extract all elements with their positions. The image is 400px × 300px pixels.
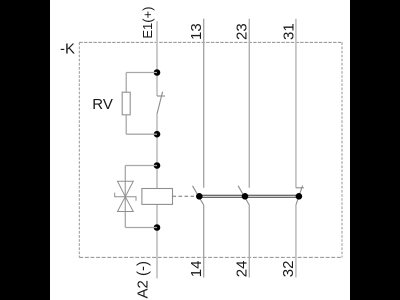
mechanical linkage dashed from coil [173,195,198,197]
wire E1 input vertical (top segment of coil path) [156,21,158,96]
svg-text:E1(+): E1(+) [140,7,155,39]
wire contact 31 top vertical [295,19,297,188]
contact 31-32 NC seat tick [296,187,304,189]
wire contact 23 top vertical [248,19,250,188]
terminal label E1(+) [140,7,155,39]
terminal label 13 [188,23,205,40]
wire suppressor branch top horizontal [125,165,157,167]
internal switch contact on coil path (seat tick) [157,95,165,97]
terminal label 24 [234,261,251,278]
wire coil path middle segment [156,114,158,189]
junction dot at E1/RV top [154,69,161,76]
wire RV branch left vertical upper lead [125,73,127,93]
terminal label 31 [280,23,297,40]
contact 23-24 NO arm [238,186,249,205]
wire contact 24 bottom vertical [248,205,250,278]
relay boundary dashed box -K top edge [79,41,342,43]
contact 31-32 NC arm [296,186,303,206]
terminal label 32 [280,261,297,278]
junction dot linkage at contact 23-24 [242,193,249,200]
relay boundary dashed box -K left edge [78,42,80,257]
wire contact 32 bottom vertical [295,205,297,278]
wire RV branch left vertical lower lead [125,115,127,134]
terminal label A2 (-) [134,261,151,299]
mechanical linkage double bar upper [199,194,298,196]
wire RV branch top horizontal [126,72,157,74]
wire RV branch bottom horizontal [126,133,157,135]
terminal label 23 [234,23,251,40]
wire contact 13 top vertical [203,19,205,188]
suppressor diode (bidirectional TVS) triangles [118,181,134,211]
terminal label 14 [188,261,205,278]
svg-text:-K: -K [60,41,75,58]
svg-text:24: 24 [234,261,251,278]
relay boundary dashed box -K right edge [341,42,343,257]
wire suppressor branch vertical [124,166,126,228]
junction dot at suppressor bottom / A2 [154,224,161,231]
junction dot at RV bottom return [154,131,161,138]
svg-text:13: 13 [188,23,205,40]
svg-text:RV: RV [92,96,113,113]
resistor RV body [122,92,130,115]
junction dot at suppressor top [154,162,161,169]
wire coil path bottom segment to A2 [156,204,158,278]
svg-text:31: 31 [280,23,297,40]
relay coil K body [142,189,173,205]
junction dot linkage at contact 13-14 [196,193,203,200]
svg-text:A2 (-): A2 (-) [134,261,151,299]
mechanical linkage double bar lower [199,196,298,198]
label -K [60,41,75,58]
label RV [92,96,113,113]
wire contact 14 bottom vertical [203,205,205,278]
suppressor diode center bar with hooks [115,193,136,201]
relay boundary dashed box -K bottom edge [79,256,342,258]
svg-text:32: 32 [280,261,297,278]
svg-text:14: 14 [188,261,205,278]
contact 13-14 NO arm [193,186,204,205]
internal switch contact arm [157,92,163,114]
wire suppressor branch bottom horizontal [125,227,157,229]
svg-text:23: 23 [234,23,251,40]
junction dot linkage at contact 31-32 [296,193,303,200]
white page band [50,0,350,300]
